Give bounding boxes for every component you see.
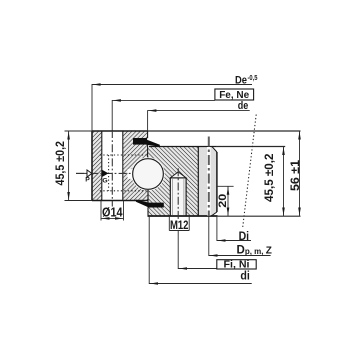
svg-text:56 ±1: 56 ±1 [288, 160, 302, 191]
svg-text:G: G [102, 178, 107, 185]
svg-text:Di: Di [239, 231, 250, 243]
svg-text:P: P [85, 177, 90, 184]
svg-text:20: 20 [217, 194, 229, 208]
svg-text:De: De [235, 75, 247, 87]
svg-text:di: di [240, 270, 250, 282]
svg-text:45,5 ±0,2: 45,5 ±0,2 [53, 141, 67, 186]
svg-text:45,5 ±0,2: 45,5 ±0,2 [262, 153, 276, 202]
svg-text:de: de [238, 100, 249, 112]
svg-text:-0,5: -0,5 [248, 73, 258, 82]
svg-text:Fi, Ni: Fi, Ni [224, 260, 250, 271]
svg-text:Ø14: Ø14 [102, 205, 123, 219]
svg-text:M12: M12 [170, 218, 189, 232]
